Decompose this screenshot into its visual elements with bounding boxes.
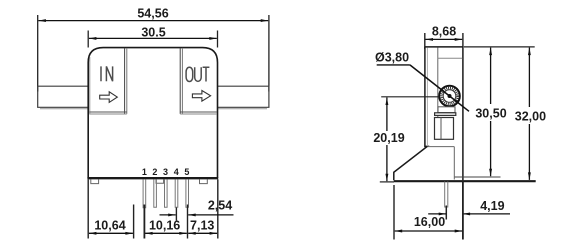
dim line 20,19 upper segment — [386, 98, 388, 132]
port knurl ring — [442, 88, 458, 104]
port center dot — [448, 94, 452, 98]
svg-text:30.5: 30.5 — [141, 25, 165, 39]
dim line 30,50 upper segment — [490, 48, 492, 104]
side body outline — [394, 47, 463, 180]
connector block inner edge — [440, 118, 442, 140]
dim 2,54 right segment — [188, 214, 233, 216]
IN panel right edge (double line) — [124, 48, 126, 114]
svg-text:5: 5 — [184, 167, 189, 177]
right latch — [200, 179, 208, 183]
ext tick pin4 (2,54) — [175, 208, 177, 221]
interior shelf horizontal — [427, 146, 454, 148]
svg-text:1: 1 — [142, 167, 147, 177]
svg-text:32,00: 32,00 — [515, 110, 546, 124]
OUT panel bottom (double line) — [180, 111, 217, 113]
svg-text:20,19: 20,19 — [373, 131, 404, 145]
dim line 54,56 — [38, 20, 268, 22]
svg-text:3: 3 — [163, 167, 168, 177]
port circle outer — [439, 86, 460, 107]
center latch — [156, 179, 164, 183]
ext line body left lower — [87, 179, 89, 238]
dim 4,19 left segment — [428, 213, 446, 215]
dim line 8,68 — [426, 38, 463, 40]
pin 5 — [186, 179, 189, 207]
dim 54,56 extension line right (tube end) — [268, 15, 270, 92]
inner vertical seam — [437, 48, 439, 118]
side base top lip — [454, 176, 501, 178]
svg-text:54,56: 54,56 — [137, 7, 168, 21]
cap seam horizontal — [438, 57, 463, 59]
top ext line right (30,50 / 32,00) — [464, 46, 535, 48]
IN panel left edge — [89, 57, 91, 114]
dim 30.5 extension right — [217, 31, 219, 48]
svg-text:2,54: 2,54 — [208, 199, 232, 213]
tube bottom shadow left — [40, 108, 88, 110]
dim line 32,00 lower segment — [528, 124, 530, 180]
right outlet tube — [218, 86, 269, 107]
leader Ø3,80 diagonal through port center — [410, 65, 469, 111]
dim line 30,50 lower segment — [490, 121, 492, 176]
svg-text:4,19: 4,19 — [480, 199, 504, 213]
pin 2 — [154, 179, 157, 207]
dim 20,19 ext bottom — [380, 181, 394, 183]
svg-text:10,64: 10,64 — [94, 218, 125, 232]
dim line 10,16 — [145, 232, 187, 234]
dim 8,68 ext left — [424, 33, 426, 49]
ext line right edge tall — [462, 181, 464, 240]
IN label — [101, 66, 113, 81]
port boss below — [438, 107, 455, 113]
IN flow arrow — [100, 92, 118, 103]
dim 20,19 ext top (port centerline) — [381, 96, 439, 98]
svg-text:8,68: 8,68 — [432, 25, 456, 39]
port boss slab — [435, 113, 456, 116]
svg-text:7,13: 7,13 — [190, 218, 214, 232]
OUT label — [186, 67, 193, 81]
svg-text:10,16: 10,16 — [149, 218, 180, 232]
dim 2,54 left segment — [160, 214, 176, 216]
ext line 10,64 right — [133, 205, 135, 239]
side pin — [445, 182, 448, 208]
tube bottom shadow right — [218, 108, 268, 110]
svg-text:30,50: 30,50 — [475, 107, 506, 121]
dim line 20,19 lower segment — [386, 145, 388, 181]
svg-text:4: 4 — [174, 167, 179, 177]
dim 54,56 extension line left (tube end) — [37, 15, 39, 92]
svg-text:2: 2 — [152, 167, 157, 177]
interior wall right vertical — [453, 147, 455, 180]
IN panel bottom (double line) — [89, 111, 127, 113]
dim 4,19 right segment — [463, 213, 510, 215]
ext line pin1 — [143, 205, 145, 239]
dim line 7,13 — [188, 232, 217, 234]
dim 8,68 ext right — [462, 33, 464, 47]
side body base bottom — [394, 180, 536, 182]
pin 1 — [143, 179, 146, 207]
svg-text:16,00: 16,00 — [414, 215, 445, 229]
side pin ext tick — [445, 206, 447, 220]
dim line 10,64 — [89, 232, 133, 234]
connector block — [435, 118, 454, 140]
pin 4 — [175, 179, 178, 207]
left inlet tube — [38, 86, 88, 107]
dim line 32,00 upper segment — [528, 48, 530, 107]
OUT panel left edge (double line) — [179, 48, 181, 114]
dim line 30.5 — [89, 37, 217, 39]
svg-text:Ø3,80: Ø3,80 — [375, 51, 409, 65]
leader Ø3,80 underline — [377, 64, 410, 66]
ext line 16,00 left — [393, 185, 395, 240]
ext line pin5 — [187, 205, 189, 239]
dim 30.5 extension left — [87, 31, 89, 48]
inner wall line left — [426, 48, 428, 147]
OUT flow arrow — [192, 91, 210, 102]
left latch — [91, 179, 99, 183]
sensor body outline (rounded top) — [88, 48, 217, 178]
pin 3 — [165, 179, 168, 207]
base flange line — [87, 177, 218, 179]
ext line body right lower — [217, 179, 219, 238]
port inner circle — [443, 90, 456, 103]
dim line 16,00 — [395, 230, 463, 232]
